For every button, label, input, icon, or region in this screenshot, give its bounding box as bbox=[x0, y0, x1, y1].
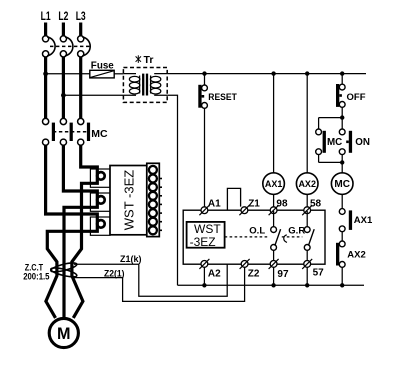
svg-text:MC: MC bbox=[91, 128, 108, 140]
wire ON branch lower bbox=[341, 155, 343, 163]
wire L2 breaker to MC bbox=[62, 57, 65, 118]
contactor MC main pole 3 bbox=[78, 118, 84, 145]
CT loop3 window bbox=[90, 217, 110, 235]
svg-text:Z2: Z2 bbox=[248, 269, 260, 280]
svg-text:A2: A2 bbox=[208, 269, 221, 280]
wire L2 supply stub bbox=[62, 23, 65, 36]
fuse F bbox=[90, 59, 114, 78]
terminal Z1 bbox=[239, 198, 260, 215]
transformer Tr bbox=[123, 54, 167, 102]
svg-text:M: M bbox=[57, 325, 71, 343]
svg-text:RESET: RESET bbox=[208, 92, 237, 103]
coil AX2 bbox=[296, 173, 318, 195]
wire rail to AX2 coil bbox=[306, 74, 308, 173]
wire A2 to bottom rail bbox=[203, 267, 205, 285]
wire L3 supply stub bbox=[79, 23, 82, 36]
linkage curl mark bbox=[284, 235, 287, 243]
node rail-AX2 junction bbox=[305, 71, 309, 75]
wire OFF to parallel block bbox=[341, 107, 343, 117]
wire MC coil to AX1 contact bbox=[341, 194, 343, 208]
control bottom rail bbox=[178, 284, 365, 286]
wire rail to RESET bbox=[204, 74, 206, 85]
wire L1 supply stub bbox=[44, 23, 47, 36]
wire phase L1 through CT loop3 to ZCT (left lane) bbox=[46, 145, 98, 318]
contactor MC main pole 1 bbox=[43, 118, 49, 145]
wire MC-aux branch lower bbox=[318, 155, 320, 163]
wire L1 breaker to MC bbox=[44, 57, 47, 118]
relay unit terminal strip bbox=[147, 163, 160, 236]
relay unit WST-3EZ body bbox=[110, 166, 147, 235]
control top rail bbox=[167, 73, 366, 75]
wire AX1 coil to terminal 98 bbox=[273, 194, 275, 206]
terminal Z2 bbox=[240, 259, 260, 280]
wire to MC coil bbox=[341, 162, 343, 172]
wire parallel top link bbox=[319, 117, 343, 119]
motor M bbox=[49, 318, 78, 347]
wire AX2 contact to bottom rail bbox=[341, 267, 343, 285]
CT loop1 winding ring bbox=[97, 172, 105, 180]
svg-text:Tr: Tr bbox=[144, 54, 154, 66]
svg-text:AX1: AX1 bbox=[354, 215, 373, 226]
CT loop2 winding ring bbox=[97, 196, 105, 204]
wire L2 tap to transformer bbox=[63, 94, 123, 96]
terminal A2 bbox=[199, 259, 221, 280]
svg-text:Fuse: Fuse bbox=[91, 59, 114, 71]
wire MC-aux branch upper bbox=[318, 118, 320, 129]
coil AX1 bbox=[263, 173, 285, 195]
wire rail to OFF bbox=[341, 74, 343, 85]
wire Z1(k) from ZCT to relay Z1 bbox=[74, 264, 227, 296]
svg-text:57: 57 bbox=[313, 268, 325, 279]
contact AX1 (NO) bbox=[339, 209, 373, 232]
breaker mechanical tie (dashed) bbox=[50, 45, 91, 47]
wire AX2 coil to terminal 58 bbox=[306, 194, 308, 206]
circuit breaker CB pole 1 bbox=[43, 36, 49, 57]
svg-text:58: 58 bbox=[310, 198, 322, 209]
wire fuse to transformer bbox=[114, 73, 123, 75]
svg-text:Z1(k): Z1(k) bbox=[120, 254, 142, 264]
terminal 97 bbox=[269, 259, 289, 280]
svg-text:AX2: AX2 bbox=[298, 179, 316, 189]
wire transformer secondary return bbox=[167, 95, 177, 285]
ZCT zero-phase current transformer bbox=[50, 261, 78, 278]
svg-text:WST -3EZ: WST -3EZ bbox=[122, 170, 137, 230]
svg-text:AX2: AX2 bbox=[347, 250, 365, 261]
node junction parallel top bbox=[340, 115, 344, 119]
wire 57 to bottom rail bbox=[306, 267, 308, 285]
contactor MC main pole 2 bbox=[60, 118, 66, 145]
node junction parallel bottom bbox=[340, 160, 344, 164]
wire parallel bottom link bbox=[319, 161, 343, 163]
relay label box WST-3EZ bbox=[187, 222, 225, 248]
contact G.R (relay internal) bbox=[288, 211, 314, 261]
node rail-97 junction bbox=[271, 283, 275, 287]
svg-text:97: 97 bbox=[277, 269, 289, 280]
wire Z1 jumper (A1-Z1 hook) bbox=[227, 188, 240, 210]
wire RESET to A1 bbox=[204, 108, 206, 207]
wire L3 breaker to MC bbox=[79, 57, 82, 118]
svg-text:O.L: O.L bbox=[249, 225, 265, 236]
terminal A1 bbox=[199, 198, 221, 215]
CT loop1 window bbox=[90, 169, 110, 187]
svg-text:L3: L3 bbox=[76, 11, 86, 23]
pushbutton OFF (NC) bbox=[336, 84, 366, 107]
relay internal dashed linkage bbox=[225, 236, 270, 238]
node rail-57 junction bbox=[305, 283, 309, 287]
contactor MC tie (dashed) bbox=[53, 131, 90, 133]
coil MC bbox=[331, 173, 353, 195]
transformer secondary coil bbox=[154, 74, 167, 96]
pushbutton ON (NO) bbox=[339, 129, 370, 155]
node rail-OFF junction bbox=[340, 71, 344, 75]
node rail-RESET junction bbox=[202, 71, 206, 75]
wire phase L2 through CT loop2 to motor (middle lane) bbox=[63, 145, 97, 319]
svg-text:L2: L2 bbox=[58, 11, 68, 23]
wire 97 to bottom rail bbox=[273, 267, 275, 285]
node junction L1-fuse bbox=[43, 71, 48, 76]
svg-text:WST: WST bbox=[194, 222, 221, 236]
wire rail to AX1 coil bbox=[273, 74, 275, 173]
node rail-AX1 junction bbox=[271, 71, 275, 75]
terminal 58 bbox=[302, 198, 321, 215]
contact AX2 (NC) bbox=[336, 241, 366, 267]
contact MC auxiliary (NO) bbox=[316, 129, 343, 155]
CT loop3 winding ring bbox=[97, 220, 105, 228]
circuit breaker CB pole 2 bbox=[60, 36, 66, 57]
label *Tr bbox=[136, 55, 141, 63]
svg-text:L1: L1 bbox=[41, 11, 51, 23]
svg-text:ON: ON bbox=[355, 137, 370, 148]
node junction L2-transformer bbox=[61, 93, 66, 98]
node rail-MC-branch junction bbox=[340, 283, 344, 287]
transformer core bbox=[142, 74, 144, 96]
wire Z2(l) from ZCT to relay Z2 bbox=[74, 267, 245, 301]
relay box WST-3EZ outline bbox=[183, 210, 325, 264]
svg-text:200:1.5: 200:1.5 bbox=[23, 271, 49, 281]
svg-text:OFF: OFF bbox=[347, 92, 366, 103]
svg-text:MC: MC bbox=[327, 137, 342, 148]
pushbutton RESET (NC) bbox=[198, 85, 237, 109]
svg-text:-3EZ: -3EZ bbox=[190, 235, 216, 249]
svg-text:G.R: G.R bbox=[288, 225, 305, 236]
terminal 98 bbox=[269, 198, 288, 215]
circuit breaker CB pole 3 bbox=[78, 36, 84, 57]
wire fuse feeder bbox=[46, 73, 90, 75]
contact O.L (relay internal) bbox=[249, 211, 280, 261]
wire phase L3 through CT loop1 to ZCT (right lane) bbox=[72, 145, 97, 318]
node rail-A2 junction bbox=[202, 283, 206, 287]
svg-text:Z1: Z1 bbox=[248, 198, 260, 209]
terminal 57 bbox=[302, 259, 324, 279]
transformer primary coil bbox=[123, 74, 136, 96]
svg-text:A1: A1 bbox=[208, 198, 221, 209]
CT loop2 window bbox=[90, 193, 110, 211]
wire ON branch upper bbox=[341, 118, 343, 129]
wire AX1 to AX2 contact bbox=[341, 232, 343, 241]
svg-text:98: 98 bbox=[276, 198, 288, 209]
svg-text:Z2(1): Z2(1) bbox=[104, 268, 125, 278]
svg-text:AX1: AX1 bbox=[265, 179, 283, 189]
svg-text:MC: MC bbox=[334, 179, 350, 190]
